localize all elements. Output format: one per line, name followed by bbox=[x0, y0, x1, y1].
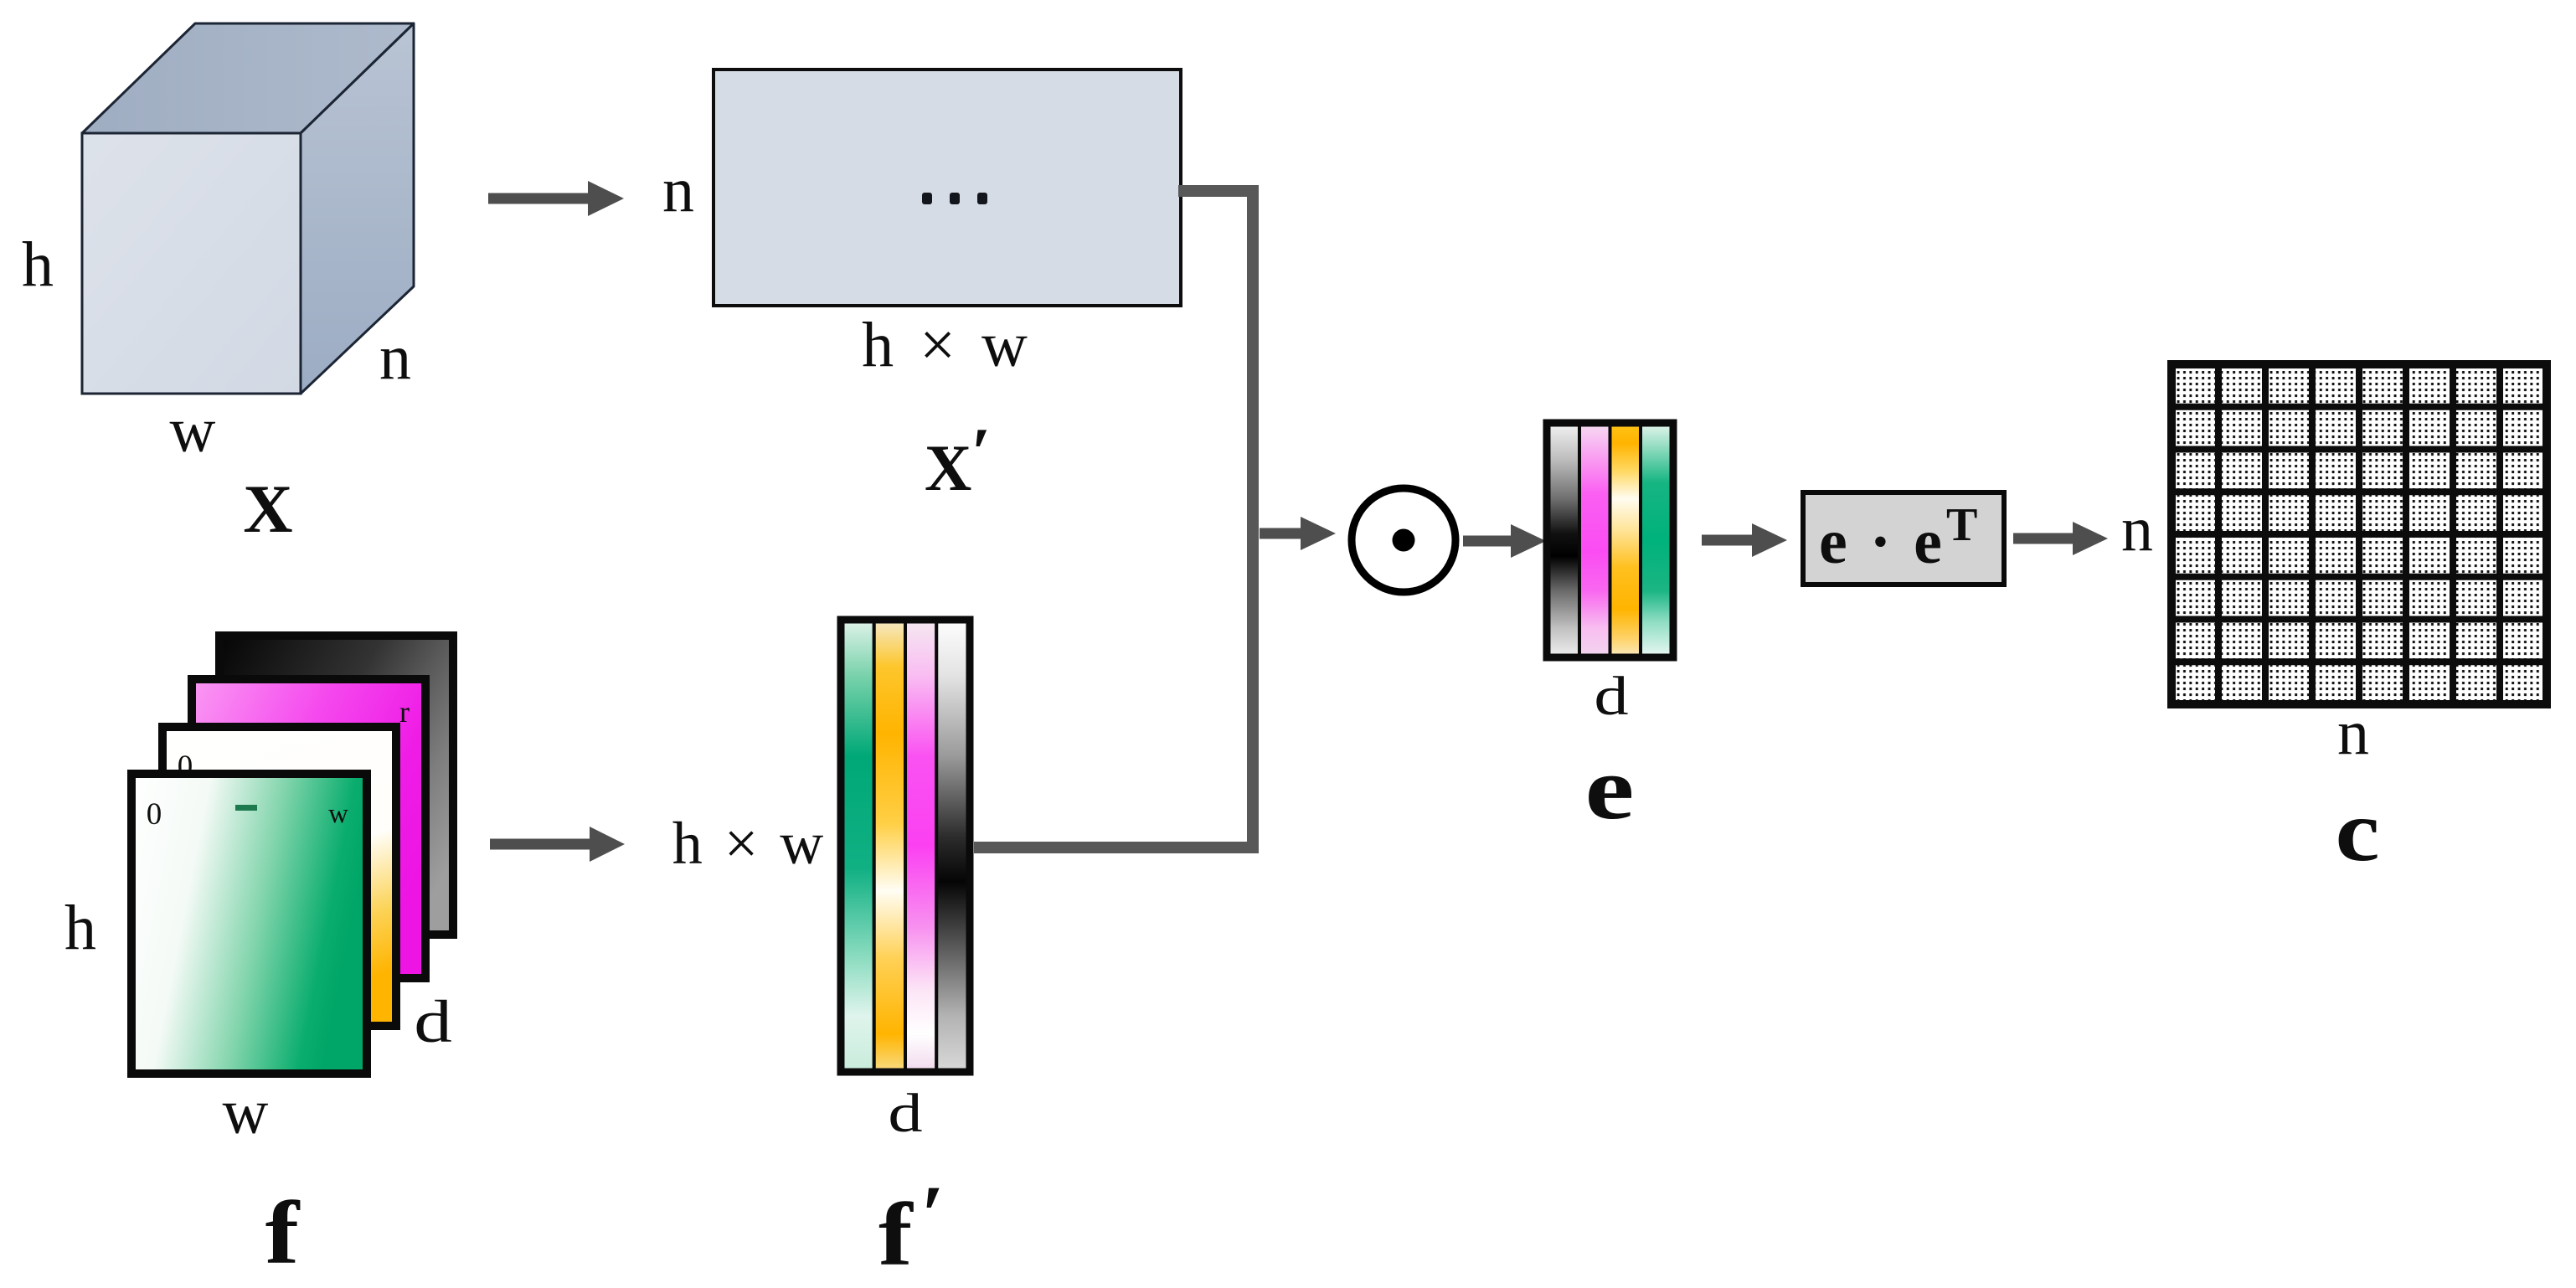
label w (cube X) bbox=[170, 395, 216, 466]
svg-text:n: n bbox=[2121, 494, 2153, 564]
svg-text:d: d bbox=[1594, 666, 1628, 727]
label h (feature maps) bbox=[64, 893, 96, 963]
svg-text:0: 0 bbox=[147, 797, 162, 832]
embedding vector e bbox=[1546, 422, 1674, 658]
arrow X to X' bbox=[488, 181, 624, 216]
label h x w (columns of X') bbox=[862, 310, 1033, 380]
outer product box e . eT bbox=[1803, 492, 2004, 585]
svg-text:h × w: h × w bbox=[862, 310, 1033, 380]
label w on f1 bbox=[328, 799, 348, 829]
svg-text:h: h bbox=[22, 229, 54, 300]
svg-text:c: c bbox=[2335, 783, 2379, 879]
label r on f3 bbox=[399, 695, 410, 729]
reshaped matrix f' bbox=[840, 619, 971, 1073]
feature map f2 (white-orange) bbox=[162, 727, 396, 1026]
feature map f3 (magenta) bbox=[192, 679, 425, 978]
label X' bbox=[925, 414, 992, 504]
label f' bbox=[878, 1168, 945, 1284]
arrow f to f' bbox=[490, 827, 625, 862]
svg-text:w: w bbox=[328, 799, 348, 829]
wire from X' and f' to junction bbox=[974, 185, 1259, 853]
svg-text:T: T bbox=[1946, 499, 1977, 551]
label h x w (rows of f') bbox=[672, 810, 827, 877]
tensor X cube right face bbox=[301, 23, 414, 394]
svg-text:r: r bbox=[399, 695, 410, 729]
label w (feature maps) bbox=[223, 1077, 269, 1147]
arrow junction to hadamard operator bbox=[1260, 517, 1336, 550]
svg-text:f: f bbox=[265, 1183, 301, 1282]
hadamard product operator bbox=[1352, 488, 1455, 592]
feature map f1 (white-green) bbox=[131, 774, 367, 1074]
svg-text:w: w bbox=[223, 1077, 269, 1147]
svg-text:w: w bbox=[170, 395, 216, 466]
svg-text:X: X bbox=[925, 431, 971, 504]
label d (under e) bbox=[1594, 666, 1628, 727]
label h (cube X) bbox=[22, 229, 54, 300]
arrow hadamard to e bbox=[1463, 524, 1546, 558]
feature map f4 (black) bbox=[219, 636, 453, 935]
svg-text:h × w: h × w bbox=[672, 810, 827, 877]
label d (feature maps) bbox=[414, 988, 452, 1055]
label n (columns of c) bbox=[2337, 698, 2369, 768]
svg-text:e · e: e · e bbox=[1819, 507, 1945, 577]
svg-text:f: f bbox=[878, 1185, 914, 1284]
ellipsis dots inside X' bbox=[922, 193, 987, 204]
label c bbox=[2335, 783, 2379, 879]
tensor X cube top face bbox=[82, 23, 414, 133]
dash mark on f1 bbox=[235, 805, 257, 811]
label e bbox=[1585, 739, 1635, 838]
svg-text:X: X bbox=[243, 471, 292, 547]
svg-text:h: h bbox=[64, 893, 96, 963]
tensor X cube front face bbox=[82, 133, 301, 394]
svg-text:d: d bbox=[888, 1083, 922, 1144]
arrow e to outer product box bbox=[1702, 523, 1787, 557]
matrix X' bbox=[714, 70, 1181, 306]
svg-text:n: n bbox=[2337, 698, 2369, 768]
svg-text:n: n bbox=[379, 322, 411, 393]
label d (under f') bbox=[888, 1083, 922, 1144]
label n (cube X) bbox=[379, 322, 411, 393]
label 0 on f2 bbox=[178, 750, 193, 784]
svg-text:e: e bbox=[1585, 739, 1635, 838]
arrow outer product to c bbox=[2013, 522, 2108, 555]
label n (rows of c) bbox=[2121, 494, 2153, 564]
svg-text:′: ′ bbox=[921, 1168, 945, 1261]
label 0 on f1 bbox=[147, 797, 162, 832]
label X bbox=[243, 471, 292, 547]
label f bbox=[265, 1183, 301, 1282]
svg-text:n: n bbox=[662, 155, 694, 225]
covariance matrix c grid bbox=[2172, 364, 2547, 704]
label n (rows of X') bbox=[662, 155, 694, 225]
svg-text:′: ′ bbox=[971, 414, 992, 492]
svg-text:d: d bbox=[414, 988, 452, 1055]
